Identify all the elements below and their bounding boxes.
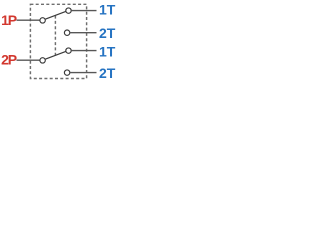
wire 2T contact to label (pole 2) bbox=[70, 72, 97, 74]
pole 1 lever bbox=[45, 11, 66, 19]
pole 2 throw 2T contact bbox=[64, 70, 69, 75]
pole 2 lever bbox=[45, 51, 66, 59]
svg-text:1P: 1P bbox=[1, 12, 17, 28]
wire 1T contact to label (pole 2) bbox=[71, 50, 96, 52]
pole 1 common contact bbox=[40, 18, 45, 23]
wire 1T contact to label (pole 1) bbox=[71, 10, 96, 12]
wire 1P to common contact bbox=[17, 19, 41, 21]
pole 2 throw 1T contact bbox=[66, 48, 71, 53]
svg-text:2T: 2T bbox=[99, 25, 116, 41]
svg-text:1T: 1T bbox=[99, 43, 116, 59]
mechanical link (dashed) bbox=[54, 16, 56, 56]
wire 2P to common contact bbox=[17, 59, 41, 61]
enclosure dashed box bbox=[30, 4, 86, 78]
pole 1 throw 1T contact bbox=[66, 8, 71, 13]
svg-text:2P: 2P bbox=[1, 51, 17, 67]
wire 2T contact to label (pole 1) bbox=[70, 32, 97, 34]
svg-text:2T: 2T bbox=[99, 65, 116, 81]
pole 2 common contact bbox=[40, 58, 45, 63]
pole 1 throw 2T contact bbox=[64, 30, 69, 35]
svg-text:1T: 1T bbox=[99, 2, 116, 18]
